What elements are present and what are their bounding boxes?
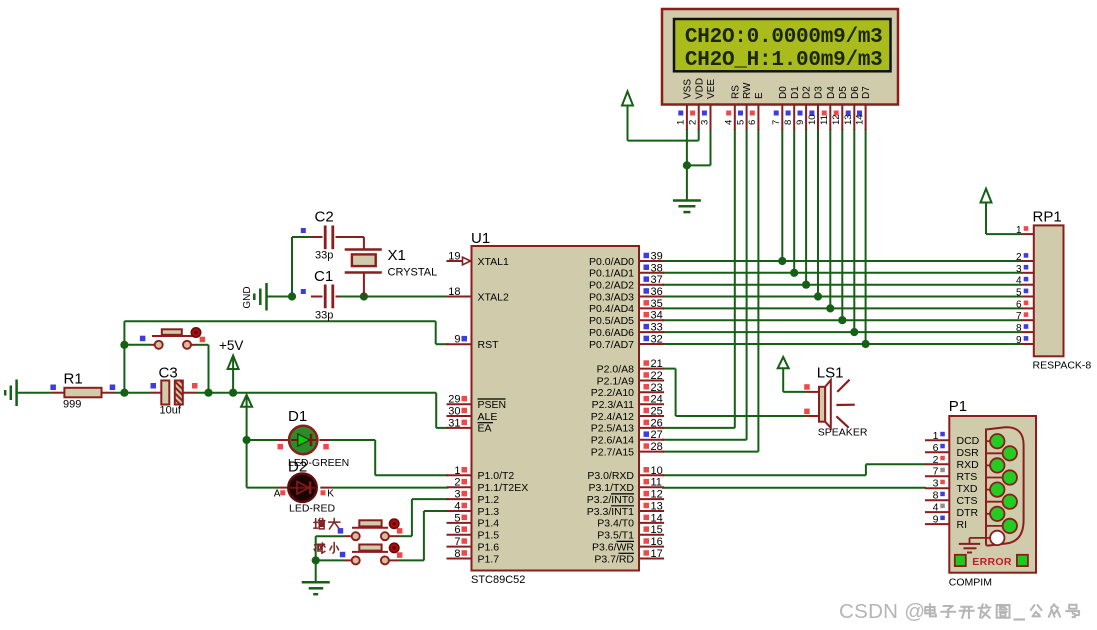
svg-text:7: 7: [933, 466, 939, 478]
svg-text:4: 4: [724, 120, 735, 125]
svg-text:K: K: [327, 489, 334, 500]
svg-text:RST: RST: [478, 339, 500, 351]
svg-text:P2.0/A8: P2.0/A8: [597, 363, 635, 375]
svg-text:EA: EA: [478, 423, 492, 435]
svg-text:8: 8: [783, 120, 794, 125]
svg-text:P1.4: P1.4: [478, 518, 500, 530]
svg-text:1: 1: [454, 465, 460, 477]
svg-text:17: 17: [651, 548, 663, 560]
svg-text:24: 24: [651, 394, 663, 406]
svg-text:8: 8: [1016, 323, 1022, 334]
svg-text:LS1: LS1: [817, 365, 844, 382]
svg-text:GND: GND: [242, 286, 253, 308]
svg-text:P2.3/A11: P2.3/A11: [592, 399, 635, 411]
svg-text:U1: U1: [471, 230, 490, 247]
svg-text:36: 36: [651, 286, 663, 298]
svg-text:P0.2/AD2: P0.2/AD2: [589, 280, 634, 292]
svg-text:14: 14: [651, 512, 663, 524]
svg-text:P1.3: P1.3: [478, 506, 500, 518]
svg-text:D6: D6: [850, 86, 861, 99]
svg-text:23: 23: [651, 382, 663, 394]
svg-text:3: 3: [699, 120, 710, 125]
svg-text:8: 8: [933, 490, 939, 502]
svg-text:RXD: RXD: [957, 459, 980, 471]
svg-text:P0.3/AD3: P0.3/AD3: [589, 291, 634, 303]
svg-text:P1.2: P1.2: [478, 494, 500, 506]
svg-text:21: 21: [651, 358, 663, 370]
svg-text:P3.2/INT0: P3.2/INT0: [587, 494, 634, 506]
svg-text:1: 1: [676, 120, 687, 125]
svg-text:STC89C52: STC89C52: [471, 574, 525, 586]
svg-text:P3.5/T1: P3.5/T1: [597, 530, 634, 542]
svg-text:P0.7/AD7: P0.7/AD7: [589, 339, 634, 351]
svg-text:R1: R1: [64, 371, 83, 388]
svg-text:11: 11: [651, 477, 662, 489]
svg-text:P0.0/AD0: P0.0/AD0: [589, 256, 634, 268]
svg-text:P1.0/T2: P1.0/T2: [478, 470, 515, 482]
svg-text:10: 10: [807, 114, 818, 125]
svg-text:2: 2: [688, 120, 699, 125]
svg-text:ERROR: ERROR: [972, 556, 1012, 568]
svg-text:7: 7: [771, 120, 782, 125]
svg-text:P3.0/RXD: P3.0/RXD: [587, 470, 634, 482]
svg-text:10: 10: [651, 465, 663, 477]
svg-text:P2.4/A12: P2.4/A12: [591, 411, 634, 423]
svg-text:DCD: DCD: [957, 435, 980, 447]
svg-text:5: 5: [735, 120, 746, 125]
svg-text:P0.4/AD4: P0.4/AD4: [589, 303, 634, 315]
svg-text:35: 35: [651, 298, 663, 310]
svg-text:3: 3: [1016, 264, 1022, 275]
svg-text:COMPIM: COMPIM: [949, 577, 992, 589]
svg-text:37: 37: [651, 274, 663, 286]
svg-text:18: 18: [448, 286, 460, 298]
svg-text:P1.1/T2EX: P1.1/T2EX: [478, 482, 529, 494]
svg-text:4: 4: [1016, 276, 1022, 287]
svg-text:D2: D2: [802, 86, 813, 99]
svg-text:27: 27: [651, 429, 663, 441]
svg-text:33: 33: [651, 322, 663, 334]
svg-text:TXD: TXD: [957, 483, 978, 495]
svg-text:P2.7/A15: P2.7/A15: [591, 446, 634, 458]
svg-text:P2.1/A9: P2.1/A9: [597, 375, 635, 387]
svg-text:DTR: DTR: [957, 507, 979, 519]
svg-text:RI: RI: [957, 519, 968, 531]
svg-text:6: 6: [747, 120, 758, 125]
svg-text:RESPACK-8: RESPACK-8: [1033, 360, 1092, 372]
svg-text:D1: D1: [790, 86, 801, 99]
svg-text:CTS: CTS: [957, 495, 978, 507]
svg-text:D1: D1: [288, 408, 307, 425]
svg-text:4: 4: [454, 501, 460, 513]
svg-text:6: 6: [454, 524, 460, 536]
svg-text:D4: D4: [826, 86, 837, 99]
svg-text:2: 2: [1016, 252, 1022, 263]
svg-text:15: 15: [651, 524, 663, 536]
svg-text:D5: D5: [838, 86, 849, 99]
svg-text:D3: D3: [814, 86, 825, 99]
svg-text:XTAL2: XTAL2: [478, 291, 509, 303]
svg-text:VDD: VDD: [694, 78, 705, 99]
svg-text:CRYSTAL: CRYSTAL: [388, 267, 438, 279]
svg-text:22: 22: [651, 370, 663, 382]
svg-text:13: 13: [651, 501, 663, 513]
svg-text:7: 7: [1016, 311, 1022, 322]
svg-text:PSEN: PSEN: [478, 399, 507, 411]
svg-text:RTS: RTS: [957, 471, 978, 483]
svg-text:D7: D7: [861, 86, 872, 99]
svg-text:9: 9: [933, 514, 939, 526]
svg-text:25: 25: [651, 406, 663, 418]
svg-text:P3.4/T0: P3.4/T0: [597, 518, 634, 530]
svg-text:10uf: 10uf: [160, 405, 182, 417]
svg-text:P3.7/RD: P3.7/RD: [594, 553, 634, 565]
svg-text:CH2O_H:1.00m9/m3: CH2O_H:1.00m9/m3: [685, 49, 883, 72]
svg-text:P0.6/AD6: P0.6/AD6: [589, 327, 634, 339]
svg-text:+5V: +5V: [219, 338, 243, 353]
svg-text:P1.5: P1.5: [478, 530, 500, 542]
svg-text:P2.5/A13: P2.5/A13: [591, 423, 634, 435]
svg-text:LED-RED: LED-RED: [289, 503, 336, 515]
svg-text:33p: 33p: [315, 310, 333, 322]
svg-text:11: 11: [819, 115, 830, 125]
svg-text:RW: RW: [742, 82, 753, 99]
svg-text:VSS: VSS: [683, 79, 694, 99]
svg-text:1: 1: [933, 430, 939, 442]
svg-text:32: 32: [651, 334, 663, 346]
svg-text:30: 30: [448, 406, 460, 418]
svg-text:26: 26: [651, 417, 663, 429]
svg-text:9: 9: [795, 120, 806, 125]
svg-text:999: 999: [63, 399, 81, 411]
svg-text:RS: RS: [730, 85, 741, 99]
svg-text:P1: P1: [949, 398, 967, 415]
svg-text:9: 9: [454, 334, 460, 346]
svg-text:7: 7: [454, 536, 460, 548]
svg-text:C1: C1: [314, 268, 333, 285]
svg-text:P3.6/WR: P3.6/WR: [592, 541, 634, 553]
svg-text:38: 38: [651, 262, 663, 274]
svg-text:P0.1/AD1: P0.1/AD1: [589, 268, 634, 280]
svg-text:9: 9: [1016, 335, 1022, 346]
svg-text:8: 8: [454, 548, 460, 560]
svg-text:A: A: [274, 489, 281, 500]
svg-text:P2.2/A10: P2.2/A10: [591, 387, 634, 399]
svg-text:3: 3: [454, 489, 460, 501]
svg-text:6: 6: [933, 442, 939, 454]
svg-text:P3.3/INT1: P3.3/INT1: [587, 506, 634, 518]
svg-text:C3: C3: [159, 365, 178, 382]
svg-text:33p: 33p: [315, 250, 333, 262]
svg-text:13: 13: [843, 114, 854, 125]
svg-text:VEE: VEE: [706, 79, 717, 99]
svg-text:19: 19: [448, 251, 460, 263]
svg-text:5: 5: [454, 512, 460, 524]
svg-text:6: 6: [1016, 299, 1022, 310]
svg-text:P2.6/A14: P2.6/A14: [591, 435, 634, 447]
svg-text:P3.1/TXD: P3.1/TXD: [588, 482, 634, 494]
svg-text:4: 4: [933, 502, 939, 514]
svg-text:31: 31: [448, 417, 460, 429]
svg-text:2: 2: [454, 477, 460, 489]
svg-text:C2: C2: [315, 209, 334, 226]
svg-text:34: 34: [651, 310, 663, 322]
svg-text:DSR: DSR: [957, 447, 980, 459]
svg-text:P1.6: P1.6: [478, 541, 500, 553]
svg-text:16: 16: [651, 536, 663, 548]
svg-text:SPEAKER: SPEAKER: [818, 427, 868, 439]
svg-text:E: E: [754, 92, 765, 99]
svg-text:2: 2: [933, 454, 939, 466]
svg-text:1: 1: [1016, 225, 1022, 236]
svg-text:ALE: ALE: [478, 411, 498, 423]
svg-text:29: 29: [448, 394, 460, 406]
svg-text:X1: X1: [388, 247, 406, 264]
svg-text:12: 12: [651, 489, 663, 501]
svg-text:CH2O:0.0000m9/m3: CH2O:0.0000m9/m3: [685, 26, 883, 49]
svg-text:5: 5: [1016, 288, 1022, 299]
svg-text:D0: D0: [778, 86, 789, 99]
svg-text:14: 14: [854, 114, 865, 125]
svg-text:39: 39: [651, 251, 663, 263]
svg-text:28: 28: [651, 441, 663, 453]
svg-text:CSDN @: CSDN @: [839, 600, 925, 623]
svg-text:12: 12: [831, 114, 842, 125]
svg-text:P1.7: P1.7: [478, 553, 500, 565]
svg-text:3: 3: [933, 478, 939, 490]
svg-text:XTAL1: XTAL1: [478, 256, 509, 268]
svg-text:P0.5/AD5: P0.5/AD5: [589, 315, 634, 327]
svg-text:RP1: RP1: [1033, 209, 1062, 226]
